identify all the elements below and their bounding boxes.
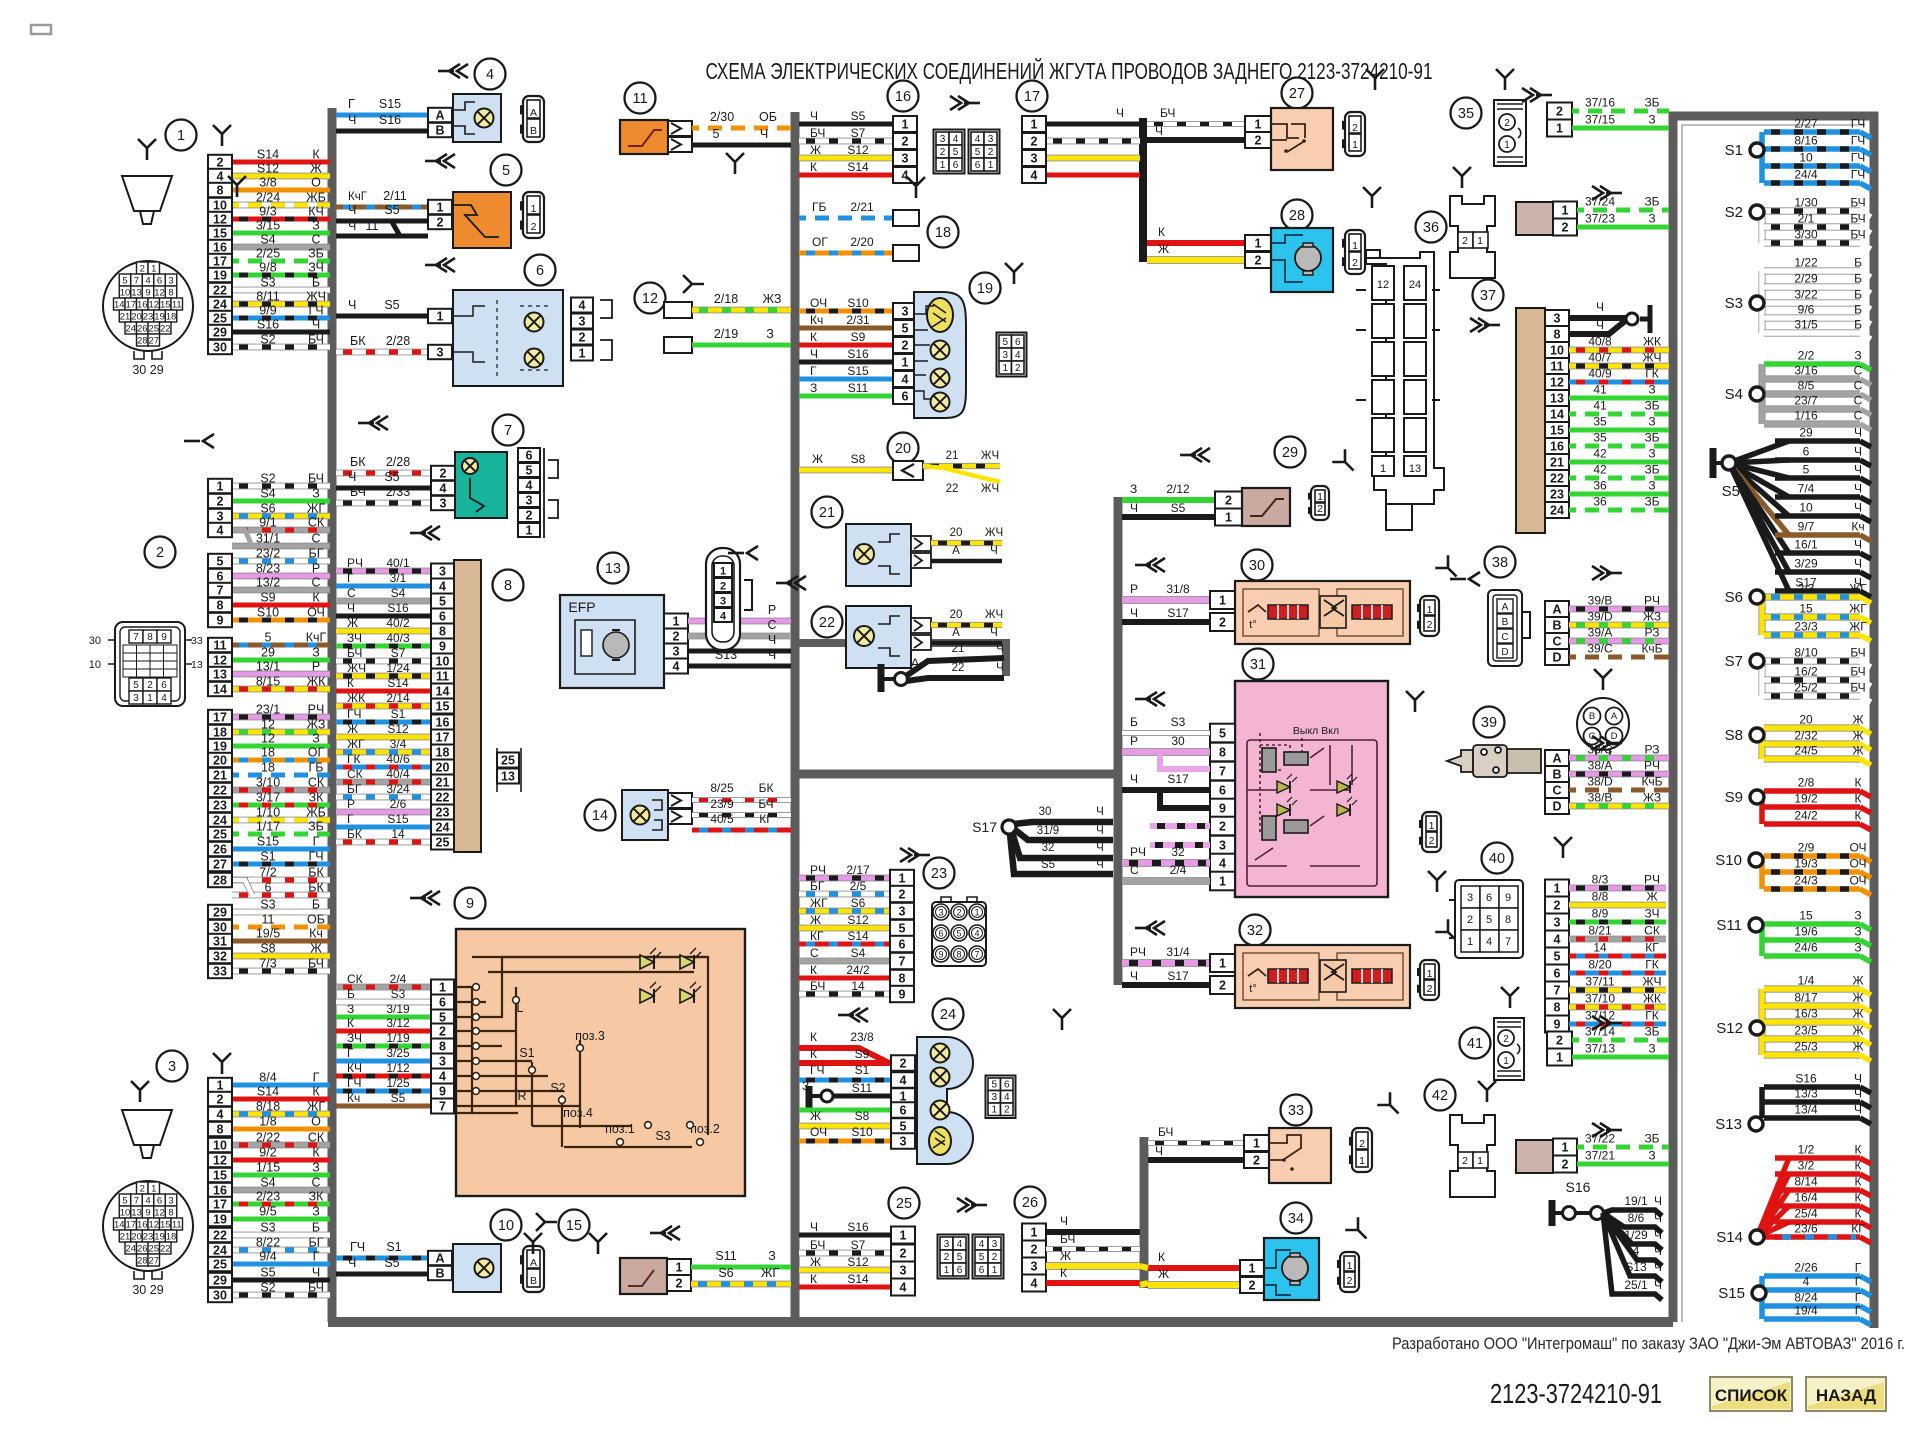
svg-text:6: 6: [526, 448, 533, 462]
arrow 6: [425, 258, 455, 272]
svg-text:9/3: 9/3: [259, 205, 276, 219]
svg-text:3/30: 3/30: [1794, 228, 1818, 242]
svg-text:27: 27: [1289, 86, 1305, 102]
svg-text:7: 7: [974, 949, 979, 959]
svg-text:5: 5: [217, 554, 224, 568]
ground in 24: [806, 1086, 813, 1108]
svg-text:16: 16: [137, 1220, 148, 1231]
heater 30 pins: [1210, 591, 1235, 609]
svg-text:1/30: 1/30: [1794, 196, 1818, 210]
svg-text:Ч: Ч: [1096, 825, 1104, 837]
svg-text:1: 1: [944, 1265, 950, 1276]
svg-text:14: 14: [436, 684, 450, 698]
svg-text:40/5: 40/5: [710, 812, 734, 826]
svg-text:19/5: 19/5: [256, 927, 280, 941]
svg-text:25/2: 25/2: [1794, 681, 1818, 695]
svg-text:Р: Р: [312, 562, 320, 576]
svg-text:2/17: 2/17: [846, 863, 870, 877]
node 5 label: [491, 155, 522, 186]
svg-text:S5: S5: [384, 470, 399, 484]
svg-text:ЗБ: ЗБ: [308, 820, 324, 834]
svg-text:РЗ: РЗ: [1645, 743, 1660, 757]
svg-text:15: 15: [1550, 423, 1564, 437]
svg-text:4: 4: [720, 610, 727, 622]
svg-text:Ч: Ч: [810, 109, 818, 123]
svg-text:3/8: 3/8: [259, 176, 276, 190]
svg-text:Г: Г: [348, 97, 355, 111]
svg-text:20: 20: [131, 1232, 142, 1243]
svg-text:22: 22: [1550, 471, 1564, 485]
svg-text:S8: S8: [1725, 727, 1743, 744]
svg-text:S17: S17: [1167, 969, 1189, 983]
svg-text:2: 2: [1255, 133, 1262, 147]
svg-text:8/11: 8/11: [256, 290, 279, 304]
svg-text:9: 9: [466, 896, 474, 912]
svg-text:поз.4: поз.4: [563, 1106, 593, 1120]
svg-text:20: 20: [950, 609, 963, 621]
svg-text:S14: S14: [847, 1272, 869, 1286]
connector 37 wires: [1569, 315, 1627, 321]
svg-text:Кч: Кч: [810, 313, 823, 327]
svg-text:12: 12: [1377, 279, 1389, 291]
node 41 label: [1460, 1028, 1491, 1059]
svg-text:29: 29: [261, 646, 275, 660]
unit 31 internals: [1247, 733, 1377, 886]
node 37 label: [1473, 280, 1504, 311]
svg-text:3/19: 3/19: [386, 1002, 410, 1016]
lamp cluster 19 wires: [799, 309, 893, 314]
svg-text:19/6: 19/6: [1794, 925, 1818, 939]
svg-text:РЧ: РЧ: [1644, 759, 1660, 773]
connector 37 body: [1516, 308, 1545, 533]
sensor 38 body: [1488, 590, 1522, 666]
svg-text:37/21: 37/21: [1585, 1149, 1615, 1163]
splice S4: [1758, 364, 1765, 424]
node 39 label: [1474, 707, 1505, 738]
svg-text:S16: S16: [1566, 1179, 1591, 1195]
svg-text:СК: СК: [308, 776, 325, 790]
svg-text:31/1: 31/1: [256, 532, 280, 546]
svg-text:1: 1: [1225, 510, 1232, 524]
svg-text:Ж: Ж: [1158, 242, 1169, 256]
node 24 label: [933, 999, 964, 1030]
svg-text:13: 13: [1409, 463, 1421, 475]
svg-text:3: 3: [902, 304, 909, 318]
svg-text:К: К: [312, 1085, 320, 1099]
svg-text:8: 8: [1505, 914, 1511, 926]
svg-text:К: К: [312, 1146, 320, 1160]
svg-text:2/5: 2/5: [850, 879, 867, 893]
svg-text:9/5: 9/5: [259, 1205, 276, 1219]
svg-text:З: З: [347, 1002, 354, 1016]
svg-text:S15: S15: [1718, 1285, 1745, 1302]
svg-text:А: А: [530, 1257, 537, 1269]
svg-text:2: 2: [1504, 118, 1510, 129]
svg-text:5: 5: [1554, 949, 1561, 963]
svg-text:2: 2: [217, 494, 224, 508]
svg-text:21: 21: [120, 1232, 131, 1243]
svg-text:2: 2: [1562, 1157, 1569, 1171]
svg-text:21: 21: [1550, 455, 1564, 469]
svg-text:2: 2: [1462, 235, 1468, 247]
svg-text:9/2: 9/2: [259, 1146, 276, 1160]
svg-text:2: 2: [1219, 819, 1226, 833]
svg-text:Выкл Вкл: Выкл Вкл: [1293, 725, 1339, 737]
svg-text:Ч: Ч: [996, 662, 1004, 674]
svg-text:S12: S12: [1716, 1020, 1743, 1037]
svg-text:4: 4: [1803, 1275, 1810, 1289]
svg-text:1: 1: [1219, 956, 1226, 970]
svg-text:С: С: [1854, 364, 1863, 378]
svg-text:2: 2: [1015, 363, 1021, 374]
svg-text:9/9: 9/9: [259, 304, 276, 318]
svg-text:S11: S11: [852, 1081, 873, 1095]
svg-text:2: 2: [217, 155, 224, 169]
lamp 10 mate connector: [523, 1246, 544, 1292]
svg-text:9: 9: [899, 987, 906, 1001]
node 20 label: [888, 433, 919, 464]
lamp 6 box: [453, 290, 563, 386]
svg-text:24: 24: [125, 1244, 136, 1255]
svg-text:Кч: Кч: [347, 1091, 360, 1105]
EFP 13 wires: [688, 618, 791, 625]
relay 5 mate connector: [523, 192, 544, 238]
unit 31 pins: [1210, 724, 1235, 743]
svg-text:К: К: [1158, 225, 1165, 239]
svg-text:1: 1: [900, 1228, 907, 1242]
connector X1 pin column: [208, 155, 232, 169]
svg-text:КГ: КГ: [1645, 941, 1659, 955]
svg-text:З: З: [1648, 113, 1655, 127]
svg-text:19: 19: [154, 1232, 165, 1243]
svg-text:3/16: 3/16: [1794, 364, 1818, 378]
svg-text:18: 18: [261, 761, 275, 775]
svg-text:8/17: 8/17: [1794, 991, 1818, 1005]
sensor 39 wires: [1569, 755, 1669, 762]
svg-text:Ж: Ж: [310, 942, 322, 956]
svg-text:ЖГ: ЖГ: [1849, 582, 1867, 596]
svg-text:S9: S9: [855, 1047, 870, 1061]
svg-text:6: 6: [157, 1196, 162, 1207]
svg-text:6: 6: [938, 928, 943, 938]
svg-text:3: 3: [673, 644, 680, 658]
svg-text:1: 1: [1359, 1155, 1365, 1167]
svg-text:3/29: 3/29: [1794, 557, 1818, 571]
sensor 36 body: [1450, 196, 1495, 278]
svg-text:Разработано ООО "Интегромаш" п: Разработано ООО "Интегромаш" по заказу З…: [1392, 1335, 1905, 1353]
svg-text:29: 29: [1282, 445, 1298, 461]
svg-text:Ч: Ч: [1130, 969, 1138, 983]
svg-text:12: 12: [1550, 375, 1564, 389]
svg-text:1/25: 1/25: [386, 1076, 410, 1090]
svg-text:18: 18: [935, 225, 951, 241]
svg-text:С: С: [347, 586, 356, 600]
svg-text:S14: S14: [257, 148, 279, 162]
connector 8 aux cells: [497, 753, 519, 768]
svg-text:Ч: Ч: [1096, 859, 1104, 871]
svg-text:2/30: 2/30: [710, 110, 734, 124]
svg-text:8/25: 8/25: [710, 781, 734, 795]
svg-text:9/4: 9/4: [259, 1250, 276, 1264]
svg-text:23: 23: [436, 805, 450, 819]
svg-text:36: 36: [1593, 479, 1607, 493]
svg-text:15: 15: [160, 1220, 171, 1231]
switch 11 wires: [692, 126, 791, 131]
svg-text:К: К: [1158, 1250, 1165, 1264]
svg-text:S4: S4: [391, 586, 406, 600]
lamp cluster 24 mate grid: [986, 1076, 1016, 1119]
svg-text:23: 23: [143, 312, 154, 323]
svg-text:39/А: 39/А: [1588, 626, 1613, 640]
svg-text:Ч: Ч: [1096, 806, 1104, 818]
svg-text:27: 27: [213, 857, 227, 871]
svg-text:1: 1: [673, 614, 680, 628]
connector X3 speaker symbol: [122, 1110, 172, 1158]
svg-text:ЖГ: ЖГ: [347, 737, 365, 751]
heater 30 wires: [1122, 596, 1210, 604]
svg-text:28: 28: [137, 336, 148, 347]
svg-text:3/25: 3/25: [386, 1046, 410, 1060]
svg-text:19/2: 19/2: [1794, 792, 1818, 806]
svg-text:1: 1: [1503, 1056, 1509, 1067]
svg-text:К: К: [347, 1016, 354, 1030]
svg-text:4: 4: [1004, 1092, 1010, 1103]
unit 31 wires: [1122, 730, 1210, 736]
arrow 4: [438, 64, 468, 78]
arrow 9: [410, 891, 440, 905]
svg-text:БЧ: БЧ: [1850, 212, 1865, 226]
svg-text:2: 2: [437, 215, 444, 229]
svg-text:24: 24: [125, 324, 136, 335]
svg-text:22: 22: [213, 283, 227, 297]
svg-text:S14: S14: [1716, 1229, 1743, 1246]
svg-text:2: 2: [140, 264, 145, 275]
svg-text:5: 5: [957, 1252, 963, 1263]
unit 31 mate: [1422, 812, 1441, 852]
svg-text:19/3: 19/3: [1794, 857, 1818, 871]
svg-text:S3: S3: [260, 898, 275, 912]
svg-text:СК: СК: [347, 767, 363, 781]
splice S15: [1759, 1276, 1765, 1319]
svg-text:2123-3724210-91: 2123-3724210-91: [1490, 1378, 1662, 1409]
svg-text:7: 7: [1219, 764, 1226, 778]
svg-text:4: 4: [486, 67, 494, 83]
svg-text:6: 6: [902, 389, 909, 403]
svg-text:7/3: 7/3: [259, 957, 276, 971]
svg-text:З: З: [810, 381, 817, 395]
connector X2 arrow: [184, 434, 214, 448]
svg-text:3: 3: [526, 493, 533, 507]
relay 27 mate oval: [1345, 112, 1365, 156]
svg-text:4: 4: [900, 1280, 907, 1294]
sensor 18 pads/wires: [799, 216, 893, 221]
svg-text:БГ: БГ: [810, 879, 825, 893]
svg-text:1: 1: [437, 309, 444, 323]
svg-text:S3: S3: [391, 987, 406, 1001]
svg-text:11: 11: [213, 638, 226, 652]
wire branch trunk A-node: [795, 643, 1006, 676]
svg-text:5: 5: [713, 127, 720, 141]
svg-text:2: 2: [1352, 122, 1358, 134]
svg-text:Ж: Ж: [1852, 1007, 1863, 1021]
svg-text:К: К: [1855, 1207, 1862, 1221]
svg-text:2/9: 2/9: [1798, 841, 1815, 855]
svg-text:23: 23: [143, 1232, 154, 1243]
arrow 16: [950, 96, 980, 110]
switch 15 box: [620, 1258, 667, 1294]
svg-text:БЧ: БЧ: [758, 797, 773, 811]
svg-text:2/22: 2/22: [256, 1131, 280, 1145]
svg-text:РЧ: РЧ: [1644, 873, 1660, 887]
svg-text:14: 14: [114, 1220, 125, 1231]
svg-text:37/16: 37/16: [1585, 96, 1615, 110]
svg-text:20: 20: [213, 753, 227, 767]
svg-text:5: 5: [956, 928, 961, 938]
svg-text:S15: S15: [257, 835, 279, 849]
svg-text:39/В: 39/В: [1588, 594, 1613, 608]
svg-text:S15: S15: [379, 97, 401, 111]
svg-text:12: 12: [154, 1208, 165, 1219]
svg-text:S7: S7: [391, 646, 406, 660]
svg-text:3: 3: [1031, 1259, 1038, 1273]
svg-text:37/22: 37/22: [1585, 1132, 1615, 1146]
svg-text:S17: S17: [1167, 606, 1189, 620]
svg-text:2: 2: [673, 629, 680, 643]
svg-text:КчБ: КчБ: [1641, 775, 1662, 789]
svg-text:1/8: 1/8: [259, 1115, 276, 1129]
svg-text:1: 1: [1317, 491, 1323, 503]
svg-text:БЧ: БЧ: [347, 646, 362, 660]
connector 8 wires: [336, 568, 431, 575]
switch 33 wires: [1148, 1140, 1244, 1146]
heater 30 mate: [1420, 596, 1439, 636]
svg-text:К: К: [1855, 1143, 1862, 1157]
svg-text:31/4: 31/4: [1166, 945, 1190, 959]
svg-text:ГЧ: ГЧ: [1851, 134, 1866, 148]
svg-text:2/32: 2/32: [1794, 729, 1818, 743]
switch 11 box: [620, 120, 668, 154]
node 4 label: [475, 59, 506, 90]
svg-text:14: 14: [213, 682, 227, 696]
svg-text:Ч: Ч: [312, 1266, 320, 1280]
svg-text:23/5: 23/5: [1794, 1024, 1818, 1038]
svg-text:S11: S11: [848, 381, 869, 395]
svg-text:14: 14: [1593, 941, 1607, 955]
svg-text:Ж: Ж: [1646, 890, 1657, 904]
splice S11: [1759, 924, 1765, 956]
svg-text:S2: S2: [260, 472, 275, 486]
svg-text:S2: S2: [260, 333, 275, 347]
svg-text:13: 13: [131, 288, 142, 299]
lamp 6 wires: [336, 314, 428, 319]
svg-text:4: 4: [439, 579, 446, 593]
svg-text:32: 32: [213, 949, 227, 963]
svg-text:9: 9: [145, 288, 150, 299]
svg-text:ЖЧ: ЖЧ: [347, 661, 366, 675]
svg-text:КГ: КГ: [1851, 1222, 1865, 1236]
svg-text:3: 3: [938, 907, 943, 917]
svg-text:19/1: 19/1: [1624, 1194, 1648, 1208]
svg-text:S5: S5: [391, 1091, 406, 1105]
svg-text:Б: Б: [1854, 256, 1862, 270]
svg-text:БЧ: БЧ: [810, 979, 825, 993]
node 22 label: [812, 607, 843, 638]
sensor 38 wires: [1569, 606, 1669, 613]
svg-text:ЗБ: ЗБ: [1644, 1132, 1659, 1146]
lamp 6 right column: [571, 298, 593, 313]
svg-text:25: 25: [213, 311, 227, 325]
switch 33 pins: [1244, 1135, 1269, 1151]
svg-text:БК: БК: [759, 781, 774, 795]
svg-text:3: 3: [992, 1239, 998, 1250]
svg-text:поз.1: поз.1: [605, 1122, 635, 1136]
svg-text:S4: S4: [260, 233, 275, 247]
svg-text:3/12: 3/12: [386, 1016, 410, 1030]
svg-text:19: 19: [977, 281, 993, 297]
svg-text:Ж: Ж: [1852, 991, 1863, 1005]
svg-text:16: 16: [1550, 439, 1564, 453]
svg-text:К: К: [810, 1272, 817, 1286]
svg-text:25/4: 25/4: [1794, 1207, 1818, 1221]
svg-text:8/18: 8/18: [256, 1100, 280, 1114]
svg-text:31/8: 31/8: [1166, 582, 1190, 596]
heater 30 box: [1235, 581, 1410, 644]
svg-text:ЗЧ: ЗЧ: [1645, 907, 1660, 921]
sensor 36 wires: [1577, 208, 1669, 213]
svg-text:БЧ: БЧ: [308, 957, 324, 971]
svg-text:31/5: 31/5: [1794, 318, 1818, 332]
svg-text:17: 17: [125, 300, 136, 311]
node 32 label: [1240, 915, 1271, 946]
svg-text:Ч: Ч: [768, 648, 776, 662]
svg-text:1/2: 1/2: [1798, 1143, 1815, 1157]
svg-text:ЖГ: ЖГ: [810, 896, 828, 910]
svg-text:Ч: Ч: [996, 643, 1004, 655]
lamp 10 pins: [428, 1251, 452, 1265]
svg-text:2: 2: [900, 1246, 907, 1260]
svg-text:2: 2: [531, 221, 537, 233]
svg-text:Ч: Ч: [1854, 557, 1862, 571]
svg-text:К: К: [810, 160, 817, 174]
svg-text:А: А: [1552, 602, 1561, 616]
svg-text:18: 18: [166, 1232, 177, 1243]
ground node A: [878, 664, 885, 692]
svg-text:БЧ: БЧ: [350, 485, 366, 499]
svg-text:8/8: 8/8: [1592, 890, 1609, 904]
svg-text:6: 6: [979, 1265, 985, 1276]
svg-text:8: 8: [217, 598, 224, 612]
svg-text:7: 7: [134, 1196, 139, 1207]
svg-text:37/23: 37/23: [1585, 212, 1615, 226]
svg-text:Ч: Ч: [810, 347, 818, 361]
svg-text:С: С: [1501, 632, 1508, 643]
switch unit 9 pins: [431, 980, 454, 995]
svg-text:6: 6: [1803, 445, 1810, 459]
svg-text:РЧ: РЧ: [347, 556, 363, 570]
svg-text:А: А: [952, 627, 960, 639]
svg-text:5: 5: [902, 321, 909, 335]
switch 33 box: [1269, 1128, 1331, 1183]
svg-text:Ж: Ж: [1852, 974, 1863, 988]
svg-text:1: 1: [902, 117, 909, 131]
svg-text:Б: Б: [1854, 288, 1862, 302]
svg-text:Г: Г: [810, 364, 817, 378]
svg-text:З: З: [1648, 1042, 1655, 1056]
svg-text:18: 18: [261, 746, 275, 760]
svg-text:БК: БК: [350, 334, 366, 348]
svg-text:19: 19: [213, 739, 227, 753]
svg-text:S17: S17: [1167, 772, 1189, 786]
